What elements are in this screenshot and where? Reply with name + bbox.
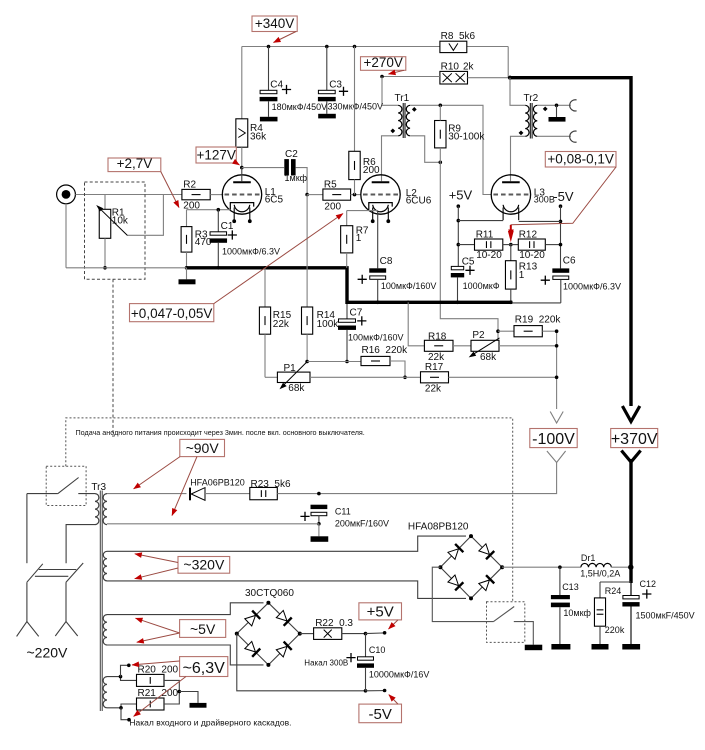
node R19 left xyxy=(496,329,500,333)
svg-text:6CU6: 6CU6 xyxy=(406,195,432,206)
node C10 bottom xyxy=(364,689,368,693)
svg-text:1000мкФ: 1000мкФ xyxy=(463,281,500,291)
node bridge left xyxy=(438,565,442,569)
resistor R14 xyxy=(302,307,313,334)
svg-text:R16 220k: R16 220k xyxy=(362,345,409,356)
resistor R9 xyxy=(435,121,446,148)
wire bridge plus to R22 xyxy=(300,633,314,635)
svg-text:1: 1 xyxy=(356,233,362,244)
svg-text:+270V: +270V xyxy=(363,55,402,70)
wire -5V filament rail xyxy=(519,220,561,222)
svg-text:30CTQ060: 30CTQ060 xyxy=(245,588,294,599)
wire Tr1 primary top xyxy=(382,104,398,106)
node R11 left xyxy=(457,243,461,247)
svg-text:220k: 220k xyxy=(605,625,625,635)
svg-text:Tr1: Tr1 xyxy=(395,93,410,104)
wire +340V top bus xyxy=(242,46,440,48)
voltage label ~90V xyxy=(180,439,225,456)
P2 wiper arrow xyxy=(473,338,500,355)
node R9 bottom xyxy=(439,161,443,165)
callout arrow +127V xyxy=(236,163,239,165)
node C1 bottom xyxy=(217,266,221,270)
resistor R12 xyxy=(518,239,545,250)
Tr2 phase dot primary xyxy=(519,131,524,136)
ground under C3 xyxy=(318,114,336,119)
bridge diode top-left xyxy=(244,611,260,627)
wire L1 plate node to C2 xyxy=(242,167,284,169)
wire R8 right to +270 node column xyxy=(507,47,509,78)
svg-text:P1: P1 xyxy=(284,363,297,374)
svg-text:2k: 2k xyxy=(463,61,475,72)
potentiometer P1 xyxy=(265,376,277,378)
voltage label +127V xyxy=(196,147,236,163)
wire ~5V bottom to bridge xyxy=(107,645,264,665)
resistor R13 xyxy=(510,245,512,261)
wire jack to R2 and volume pot xyxy=(75,194,181,196)
P1 wiper arrow xyxy=(284,362,307,385)
node R12 right xyxy=(559,243,563,247)
Tr3 winding ~320V xyxy=(103,551,107,581)
mains double switch xyxy=(27,564,43,582)
node R15 top on ground bus xyxy=(263,266,267,270)
svg-text:R10: R10 xyxy=(441,61,460,72)
node R13 bottom xyxy=(509,301,513,305)
callout arrow +340V xyxy=(274,32,297,43)
wire R1 wiper to grid line xyxy=(128,195,164,236)
node -5V rail xyxy=(559,220,563,224)
wire ground bus thin part xyxy=(66,267,187,269)
svg-text:Dr1: Dr1 xyxy=(581,553,596,563)
callout arrows ~320V xyxy=(135,554,178,563)
svg-text:300В: 300В xyxy=(534,195,555,205)
callout arrows ~6,3V xyxy=(132,661,180,665)
svg-text:Tr2: Tr2 xyxy=(524,93,539,104)
node +270V xyxy=(380,75,384,79)
wire C11 to ground xyxy=(318,524,320,537)
potentiometer P2 xyxy=(471,340,499,351)
voltage label +0,047-0,05V xyxy=(130,304,214,322)
wire Tr1 primary bottom to L2 plate xyxy=(382,136,399,181)
ground under relay xyxy=(525,645,543,651)
node bridge top xyxy=(469,534,473,538)
wire Tr1 secondary bottom to R9 bottom xyxy=(410,136,440,163)
svg-text:C3: C3 xyxy=(329,79,342,90)
dashed box around delay switch xyxy=(46,466,86,505)
wire grid node to R5 xyxy=(307,194,323,196)
node C4 top / +340V point xyxy=(267,45,271,49)
wire R18 feed xyxy=(408,302,424,346)
capacitor C12 xyxy=(623,596,639,599)
Tr1 phase dot primary xyxy=(390,129,395,134)
svg-text:+2,7V: +2,7V xyxy=(117,156,153,171)
output terminal arc top xyxy=(570,100,577,111)
svg-text:C11: C11 xyxy=(335,507,351,517)
+5V stub terminal xyxy=(366,632,385,635)
tube L1 xyxy=(222,175,261,214)
capacitor C6 xyxy=(552,268,569,272)
resistor R16 xyxy=(361,356,390,365)
svg-text:~90V: ~90V xyxy=(186,440,220,456)
wire L1 plate stem xyxy=(241,168,243,182)
svg-text:Накал 300В: Накал 300В xyxy=(304,658,348,667)
wire P1 wiper net xyxy=(307,361,361,363)
svg-text:5k6: 5k6 xyxy=(459,31,476,42)
wire R23 to C11 node xyxy=(277,493,319,495)
svg-text:R2: R2 xyxy=(183,180,196,191)
resistor R8 xyxy=(440,41,467,52)
Tr2 phase dot secondary xyxy=(543,107,548,112)
node +370V junction xyxy=(628,565,633,570)
svg-text:1000мкФ/6.3V: 1000мкФ/6.3V xyxy=(563,281,621,291)
svg-text:R11: R11 xyxy=(476,229,494,240)
delay switch contact xyxy=(27,493,58,495)
svg-text:68k: 68k xyxy=(288,383,305,394)
svg-text:68k: 68k xyxy=(480,352,497,363)
node bridge right xyxy=(298,632,302,636)
svg-text:C6: C6 xyxy=(563,256,576,267)
wire thick +370V down to filter xyxy=(629,459,632,583)
wire C6 bottom to ground bus xyxy=(512,302,561,304)
transformer Tr3 core xyxy=(99,491,101,712)
svg-text:330мкФ/450V: 330мкФ/450V xyxy=(328,102,384,112)
transformer Tr2 secondary winding xyxy=(533,105,537,136)
svg-text:R17: R17 xyxy=(425,362,444,373)
callout line +0,08-0,1V xyxy=(511,167,616,237)
svg-text:-100V: -100V xyxy=(532,431,575,448)
resistor R19 xyxy=(514,326,542,337)
svg-text:R8: R8 xyxy=(441,31,454,42)
wire +5V filament rail xyxy=(458,220,503,222)
tube L2 xyxy=(361,175,400,214)
red arrow at R11-R12 midpoint xyxy=(508,231,514,242)
dashed link down to power unit box xyxy=(112,279,114,437)
svg-text:R12: R12 xyxy=(519,229,538,240)
wire diode to R23 xyxy=(205,493,250,495)
svg-text:C2: C2 xyxy=(285,149,298,160)
node R11-R12 midpoint xyxy=(509,243,513,247)
svg-text:+370V: +370V xyxy=(611,431,658,448)
relay switch contact xyxy=(494,607,515,622)
voltage label ~5V xyxy=(180,620,226,638)
wire ~6,3V top to R20 xyxy=(107,677,137,681)
callout arrow +2,7V xyxy=(161,172,179,208)
callout arrow -5V xyxy=(389,695,398,705)
wire R4 top feed xyxy=(241,47,243,119)
tube L3 xyxy=(491,175,530,214)
ground under C4 xyxy=(260,117,278,122)
wire L1 cathode to R3/C1 xyxy=(187,209,231,211)
wire R20-R21 to ground xyxy=(164,680,179,704)
wire mains plug leads xyxy=(26,582,28,621)
transformer Tr2 primary winding xyxy=(525,105,529,136)
voltage label ~320V xyxy=(178,557,230,574)
bridge diode bottom-left xyxy=(244,641,260,657)
wire ~320V bottom to bridge xyxy=(107,581,466,599)
ground under C13 xyxy=(551,644,570,650)
node bridge bottom xyxy=(469,596,473,600)
-5V terminal stub xyxy=(559,204,563,208)
node R3 bottom / ground bus start xyxy=(185,266,189,270)
svg-text:100мкФ/160V: 100мкФ/160V xyxy=(348,333,404,343)
node R18 on ground bus xyxy=(406,301,410,305)
svg-text:+127V: +127V xyxy=(196,148,235,163)
svg-text:-5V: -5V xyxy=(369,706,392,723)
wire +270V down to Tr1 primary xyxy=(381,77,383,106)
svg-text:-5V: -5V xyxy=(553,189,574,204)
svg-text:+340V: +340V xyxy=(255,16,294,31)
voltage label ~6,3V xyxy=(180,657,228,677)
svg-text:10мкф: 10мкф xyxy=(563,608,591,618)
wire R12 right xyxy=(545,244,560,246)
resistor R23 xyxy=(250,487,277,499)
wire R1 bottom to ground bus xyxy=(104,238,106,267)
chassis bar at Tr2 xyxy=(549,117,566,122)
resistor R2 xyxy=(182,189,210,199)
node winding top xyxy=(119,675,123,679)
wire R2 to L1 grid xyxy=(210,194,223,196)
diode HFA06PB120 xyxy=(189,488,191,501)
resistor R4 xyxy=(236,119,248,147)
svg-text:P2: P2 xyxy=(472,330,485,341)
wire R14 grid-leak feed xyxy=(306,195,308,307)
resistor R5 xyxy=(323,189,351,200)
wire R11 left xyxy=(458,244,474,246)
node C3 top xyxy=(325,45,329,49)
svg-text:10-20: 10-20 xyxy=(519,250,545,261)
callout arrow +0,047-0,05V xyxy=(214,214,343,304)
svg-text:~320V: ~320V xyxy=(183,557,225,573)
node C13 top xyxy=(558,565,562,569)
node R6 bottom xyxy=(353,193,357,197)
node C11 top xyxy=(317,492,321,496)
resistor R15 xyxy=(264,268,266,307)
svg-text:~5V: ~5V xyxy=(190,621,216,637)
svg-text:R20 200: R20 200 xyxy=(138,664,179,675)
bridge diode top-right xyxy=(478,543,494,559)
wire -100V rail vertical xyxy=(556,331,558,400)
wire bridge minus to relay xyxy=(432,567,493,621)
svg-text:R5: R5 xyxy=(324,180,337,191)
svg-text:6C5: 6C5 xyxy=(265,195,284,206)
wire R19 left link xyxy=(498,330,514,332)
voltage label -5V output xyxy=(359,704,402,723)
wire R18 to P2 xyxy=(453,345,471,347)
svg-text:Подача анодного питания происх: Подача анодного питания происходит через… xyxy=(76,428,365,437)
transformer Tr1 secondary winding xyxy=(406,105,410,136)
node C5 bottom xyxy=(456,301,460,305)
svg-text:200: 200 xyxy=(363,165,380,176)
svg-text:C7: C7 xyxy=(350,307,363,318)
ground under C11 xyxy=(311,536,329,542)
dashed delay-unit box xyxy=(66,418,513,602)
Tr3 winding ~6,3V xyxy=(103,677,107,708)
resistor R10 xyxy=(440,71,468,84)
svg-text:C13: C13 xyxy=(562,582,579,592)
bridge diode top-left xyxy=(447,544,463,560)
voltage label +5V output xyxy=(359,603,402,620)
voltage label +270V xyxy=(361,57,406,71)
svg-text:1000мкФ/6.3V: 1000мкФ/6.3V xyxy=(222,247,280,257)
node R1 bottom xyxy=(103,266,107,270)
mains plug fork left xyxy=(17,622,39,637)
svg-text:R18: R18 xyxy=(428,331,447,342)
potentiometer R1 xyxy=(104,195,106,210)
choke Dr1 xyxy=(581,563,611,567)
capacitor C1 xyxy=(217,210,219,232)
voltage label +370V xyxy=(611,429,658,448)
capacitor C3 xyxy=(326,47,328,91)
transformer Tr1 primary winding xyxy=(398,105,402,136)
node Tr2 secondary tap xyxy=(555,104,559,108)
wire R4 to L1 plate node xyxy=(241,147,243,167)
node main B+ junction xyxy=(508,76,512,80)
capacitor C5 xyxy=(451,266,463,269)
wire R22 to +5V node xyxy=(342,633,366,635)
wire ~90V top to diode xyxy=(107,493,187,495)
resistor R24 xyxy=(600,581,631,583)
voltage label +340V xyxy=(252,16,297,32)
svg-text:C1: C1 xyxy=(221,221,234,232)
svg-text:~220V: ~220V xyxy=(27,645,69,661)
svg-text:C12: C12 xyxy=(640,579,657,589)
svg-text:36k: 36k xyxy=(250,132,267,143)
callout arrows ~5V xyxy=(136,618,180,633)
transformer Tr3 primary winding xyxy=(95,494,99,525)
node C1 top xyxy=(217,208,221,212)
capacitor C11 xyxy=(311,505,328,509)
svg-text:HFA08PB120: HFA08PB120 xyxy=(408,522,469,533)
callout arrow +5V xyxy=(389,620,399,629)
wire tap to chassis xyxy=(556,105,558,117)
svg-text:C5: C5 xyxy=(462,257,475,268)
dashed box around R1 xyxy=(85,182,146,279)
svg-text:R23 5k6: R23 5k6 xyxy=(251,479,291,490)
ground symbol below bus xyxy=(186,268,188,280)
resistor R7 xyxy=(346,211,348,226)
mains plug fork right xyxy=(55,622,77,637)
svg-text:180мкФ/450V: 180мкФ/450V xyxy=(272,102,328,112)
wire Tr2 primary top from B+ junction xyxy=(510,78,525,106)
output terminal arc bottom xyxy=(570,131,577,142)
node +5V rail xyxy=(457,219,461,223)
svg-text:10000мкФ/16V: 10000мкФ/16V xyxy=(369,670,430,680)
capacitor C8 xyxy=(377,211,379,269)
svg-text:10k: 10k xyxy=(112,216,129,227)
resistor R18 xyxy=(424,340,453,351)
node winding bottom xyxy=(119,706,123,710)
svg-text:100мкФ/160V: 100мкФ/160V xyxy=(381,281,437,291)
node bridge bottom xyxy=(266,663,270,667)
voltage label +0,08-0,1V xyxy=(545,152,616,168)
wire R19 to -100V rail xyxy=(542,330,556,332)
thick arrow into +370V label xyxy=(622,406,639,422)
wire ground bus thick xyxy=(187,268,513,303)
svg-text:470: 470 xyxy=(195,237,212,248)
node L2 grid network xyxy=(305,193,309,197)
transformer Tr1 core xyxy=(402,103,404,138)
capacitor C2 xyxy=(284,159,289,175)
wire mains left pole xyxy=(26,494,28,564)
svg-text:+5V: +5V xyxy=(449,188,473,203)
wire L2 cathode to R7 and C8 xyxy=(347,210,378,212)
test stub bottom xyxy=(121,708,129,720)
wire thick B+ line to the right and down to +370V arrow xyxy=(510,78,631,406)
resistor R21 xyxy=(137,698,165,710)
resistor R22 xyxy=(314,628,342,640)
wire P2 right to -100V rail xyxy=(499,345,557,347)
bridge diode bottom-left xyxy=(447,574,463,590)
Tr3 winding ~90V xyxy=(103,494,107,525)
wire R16 right down to P1 output node xyxy=(390,361,405,377)
input jack xyxy=(57,185,76,204)
wire Tr2 primary bottom to L3 plate xyxy=(511,136,526,181)
relay fixed contact to ground xyxy=(514,622,534,645)
wire R5 to L2 grid xyxy=(351,194,361,196)
Tr1 phase dot secondary xyxy=(412,107,417,112)
svg-text:C8: C8 xyxy=(380,256,393,267)
wire bridge plus to filter xyxy=(502,566,581,568)
capacitor C7 xyxy=(346,304,348,319)
node bridge right xyxy=(500,565,504,569)
wire ~6,3V bottom to R21 xyxy=(107,704,137,708)
wire R11 to R12 xyxy=(503,244,519,246)
bridge 30CTQ060 frame xyxy=(237,603,300,665)
svg-text:R19 220k: R19 220k xyxy=(515,315,562,326)
svg-text:R22 0.3: R22 0.3 xyxy=(315,618,353,629)
svg-text:+5V: +5V xyxy=(367,603,394,620)
wire bridge minus to -5V rail xyxy=(237,634,366,691)
resistor R17 xyxy=(421,372,449,383)
node L1 plate / +127V point xyxy=(240,166,244,170)
svg-text:1500мкF/450V: 1500мкF/450V xyxy=(636,610,695,620)
node C11 bottom xyxy=(317,522,321,526)
svg-text:1мкф: 1мкф xyxy=(285,173,308,183)
node R9 top xyxy=(439,104,443,108)
node R14 bottom / P1 wiper net xyxy=(305,360,309,364)
arrow into -100V label xyxy=(556,401,558,410)
wire R10 right to junction xyxy=(468,77,511,79)
wire C2 to grid node of L2 xyxy=(296,168,308,195)
wire Tr3 primary bottom to mains switch xyxy=(66,525,95,564)
svg-text:R24: R24 xyxy=(605,586,622,596)
resistor R11 xyxy=(475,239,503,250)
Tr3 winding ~5V xyxy=(103,615,107,645)
node on -100V rail at R19 xyxy=(555,329,559,333)
voltage label +2,7V xyxy=(108,158,161,172)
bridge HFA08PB120 frame xyxy=(440,536,502,598)
node on -100V rail at P2 xyxy=(555,344,559,348)
dashed box around HV relay xyxy=(487,602,525,643)
capacitor C10 xyxy=(365,634,367,657)
svg-text:10-20: 10-20 xyxy=(476,250,502,261)
callout arrows ~90V xyxy=(134,457,180,489)
svg-text:~6,3V: ~6,3V xyxy=(183,660,226,677)
resistor R20 xyxy=(137,674,165,686)
capacitor C13 xyxy=(559,567,561,595)
node P1-R17 junction xyxy=(403,376,407,380)
svg-text:Tr3: Tr3 xyxy=(91,482,106,493)
capacitor C4 xyxy=(268,47,270,91)
callout arrow +270V xyxy=(389,70,405,74)
wire ~5V top to bridge xyxy=(107,603,264,615)
svg-text:30-100k: 30-100k xyxy=(448,131,485,142)
wire R9 bottom down to bias network xyxy=(439,148,441,162)
test stub top xyxy=(121,665,129,676)
+5V terminal stub xyxy=(457,204,461,208)
svg-text:+0,08-0,1V: +0,08-0,1V xyxy=(547,152,613,167)
wire Tr2 secondary bottom to output xyxy=(537,135,571,137)
thick arrow out of +370V label xyxy=(621,451,640,463)
